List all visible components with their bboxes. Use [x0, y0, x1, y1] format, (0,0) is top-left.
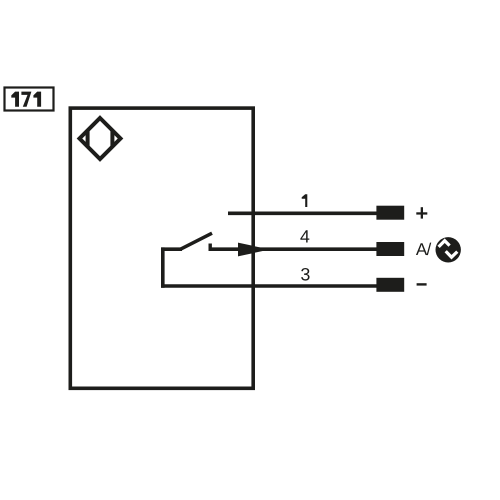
wire from node to switch: [161, 247, 182, 251]
terminal pin 3: [376, 278, 404, 292]
label A/ (switchable output): [416, 243, 431, 255]
wire 1: [228, 212, 377, 216]
wire 3: [161, 284, 377, 288]
pin number 4: [300, 230, 309, 242]
label minus (negative supply): [417, 283, 427, 285]
wire 4: [210, 247, 377, 251]
switch lever (NO contact): [181, 233, 213, 249]
sensor body outline: [70, 108, 253, 388]
label + (positive supply): [416, 207, 427, 218]
switch fixed contact tick: [208, 244, 211, 252]
inductive sensor symbol U1 (diamond): [80, 118, 121, 159]
switchable output icon: [436, 237, 461, 262]
terminal pin 1: [376, 206, 404, 220]
terminal pin 4: [376, 242, 404, 256]
pin number 3: [301, 268, 309, 281]
wire left vertical: [161, 247, 165, 287]
pin number 1: [302, 194, 308, 207]
figure number frame: [5, 88, 54, 111]
figure number text 171: [11, 92, 41, 107]
output arrow: [238, 243, 270, 257]
